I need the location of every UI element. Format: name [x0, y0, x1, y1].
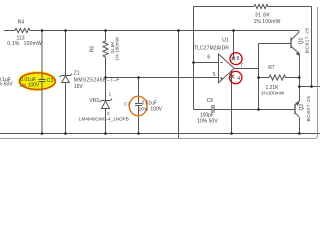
svg-text:0.01uF: 0.01uF: [142, 100, 158, 106]
svg-text:1: 1: [109, 91, 112, 96]
svg-text:7: 7: [240, 63, 243, 69]
svg-text:1.21K: 1.21K: [265, 85, 279, 91]
svg-text:C7: C7: [124, 102, 130, 108]
svg-text:100V: 100V: [28, 83, 40, 89]
svg-text:BC807-25: BC807-25: [306, 96, 312, 122]
svg-text:4: 4: [237, 76, 240, 82]
svg-text:1% 100mW: 1% 100mW: [114, 36, 119, 60]
svg-text:R6: R6: [89, 46, 95, 53]
svg-text:100V: 100V: [150, 107, 162, 113]
svg-text:6: 6: [207, 54, 210, 60]
svg-text:2: 2: [107, 111, 110, 116]
svg-text:U1: U1: [222, 38, 229, 44]
svg-text:31.6K: 31.6K: [255, 13, 270, 19]
svg-text:BC817-25: BC817-25: [305, 27, 311, 53]
svg-text:100mW: 100mW: [24, 41, 42, 47]
svg-text:5: 5: [213, 72, 216, 78]
svg-text:TLC27M2AIDR: TLC27M2AIDR: [194, 45, 229, 51]
svg-text:1%100mW: 1%100mW: [261, 90, 285, 96]
svg-text:10% 50V: 10% 50V: [0, 81, 13, 87]
svg-text:10%: 10%: [139, 107, 149, 113]
svg-text:C3: C3: [47, 78, 54, 84]
svg-text:15V: 15V: [74, 84, 84, 90]
svg-text:R4: R4: [18, 20, 25, 26]
svg-text:MMSZ5245B–7–F: MMSZ5245B–7–F: [74, 78, 120, 84]
svg-text:C6: C6: [207, 98, 214, 104]
svg-text:VR2: VR2: [89, 98, 99, 104]
svg-text:10% 50V: 10% 50V: [197, 119, 218, 125]
svg-text:0.1%: 0.1%: [7, 41, 20, 47]
svg-text:1%: 1%: [254, 19, 262, 25]
svg-text:100mW: 100mW: [262, 19, 280, 25]
svg-text:Q2: Q2: [299, 104, 305, 111]
svg-text:8: 8: [237, 56, 240, 62]
svg-text:Z1: Z1: [74, 71, 80, 77]
svg-text:R7: R7: [268, 65, 275, 71]
svg-text:1%: 1%: [19, 82, 27, 88]
svg-text:LM4040CIM3-4_1NOPB: LM4040CIM3-4_1NOPB: [79, 116, 129, 121]
svg-text:Q1: Q1: [298, 37, 304, 44]
